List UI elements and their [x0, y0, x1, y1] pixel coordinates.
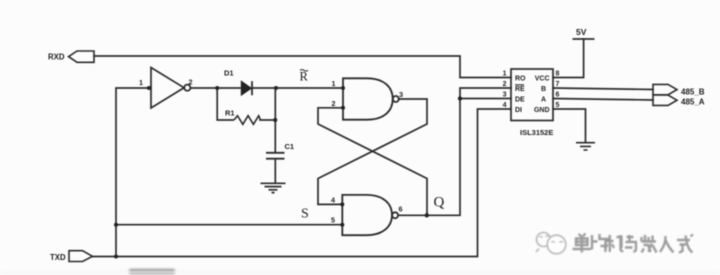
ground below C1 — [261, 183, 286, 192]
wire C1 bottom to ground — [274, 159, 276, 183]
wire S net: pin5 of U2B to TXD vertical — [116, 224, 342, 226]
wire B pin7 to 485_B flag — [553, 88, 653, 90]
wire D1 cathode to gate pin1 (R net) — [252, 87, 343, 89]
wire DE pin3 stub — [460, 98, 511, 100]
wire A pin6 to 485_A flag — [553, 99, 653, 101]
node: Q junction — [425, 213, 429, 217]
node: gate2 pin5 — [340, 223, 344, 227]
node: inverter input junction — [147, 86, 151, 90]
node: gate1 pin1 — [341, 86, 345, 90]
TXD port flag — [69, 251, 93, 262]
resistor R1 — [234, 116, 261, 125]
node: R1/C1 — [273, 118, 277, 122]
NAND gate U2B (bottom) — [342, 195, 398, 235]
485_B port flag — [653, 84, 677, 94]
5V power symbol — [573, 38, 595, 40]
diode D1 — [241, 81, 252, 95]
wire TXD net: flag to DI pin4 — [93, 109, 512, 257]
wire Q net: gate2 output6 to RE pin2 — [398, 88, 511, 215]
IC U3 ISL3152E body — [511, 69, 553, 121]
node: TXD line junction — [114, 255, 118, 259]
node: D1/C1 right — [274, 86, 278, 90]
wire R1 left branch — [217, 88, 233, 120]
capacitor C1 — [266, 153, 285, 159]
net label R (active low) — [300, 70, 309, 84]
node: gate1 pin2 — [341, 106, 345, 110]
wire left vertical TXD branch to inverter input — [116, 88, 151, 257]
node: gate2 pin4 — [340, 202, 344, 206]
node: DE junction — [458, 96, 462, 100]
bottom faint smudge artifacts — [129, 269, 175, 274]
U3 pin name RE (active low) — [515, 85, 525, 93]
wire R1 right to node — [260, 119, 275, 121]
node: D1/R1 left — [215, 86, 219, 90]
node: S wire on TXD vertical — [114, 223, 118, 227]
wire RXD net: flag to RO pin1 — [94, 56, 511, 78]
485_A port flag — [653, 95, 677, 105]
RXD port flag — [69, 51, 95, 62]
wire cross-couple: gate1 pin2 to Q node — [318, 108, 427, 216]
inverter U1 — [151, 68, 190, 109]
wire GND pin5 to ground — [553, 109, 586, 142]
NAND gate U2A (top) — [343, 78, 399, 119]
wire C1 node vertical — [274, 88, 276, 152]
wire cross-couple: gate1 output3 to gate2 pin4 — [318, 99, 427, 204]
ground below chip GND pin — [576, 143, 595, 150]
wire inverter output to D1 anode — [190, 87, 240, 89]
wire VCC pin8 to 5V — [553, 39, 584, 78]
